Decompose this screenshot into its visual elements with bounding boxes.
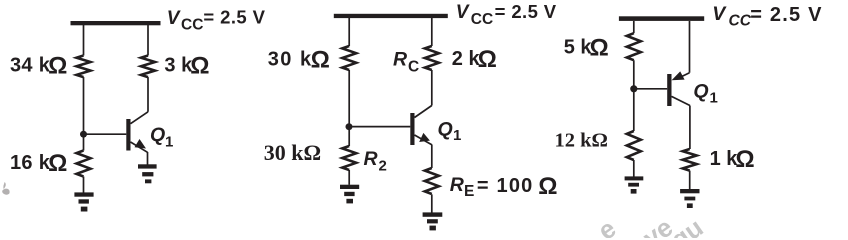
svg-text:V: V	[167, 8, 181, 29]
wire emitter to rail	[689, 21, 691, 73]
wire emitter to ground	[147, 152, 149, 165]
label 12 kOhm (serif)	[555, 130, 608, 152]
svg-text:= 2.5 V: = 2.5 V	[750, 4, 822, 26]
wire RC to collector Q1	[431, 70, 433, 106]
wire R16k to ground	[83, 177, 85, 193]
watermark letters ve	[637, 212, 678, 240]
wire rail to R 34k	[83, 25, 85, 56]
VCC rail 1	[71, 21, 161, 25]
svg-text:R: R	[393, 48, 407, 70]
wire R2 to ground	[348, 170, 350, 185]
svg-text:qu: qu	[665, 212, 708, 238]
wire rail to R 5k	[633, 21, 635, 33]
svg-text:CC: CC	[729, 13, 752, 30]
ground 4 (under RE)	[423, 212, 443, 230]
resistor R2	[342, 146, 356, 170]
wire rail to R 3k	[147, 25, 149, 56]
resistor 30 kOhm (upper)	[342, 46, 356, 70]
svg-text:V: V	[456, 2, 470, 23]
ground 3 (under R2)	[340, 185, 359, 204]
label 3 kOhm	[164, 52, 209, 79]
label 30 kOhm (left of R2, serif)	[264, 140, 321, 165]
svg-text:V: V	[712, 3, 727, 25]
wire emitter to RE	[431, 145, 433, 169]
svg-text:1: 1	[710, 90, 718, 107]
svg-text:= 2.5 V: = 2.5 V	[495, 1, 557, 22]
ground 1 (under 16k)	[74, 192, 93, 211]
svg-text:CC: CC	[181, 17, 203, 34]
wire R12k to ground	[633, 160, 635, 177]
wire R3k to collector Q1	[147, 77, 149, 112]
node A (base divider junction)	[80, 131, 87, 138]
watermark letters qu	[665, 212, 708, 240]
svg-text:1: 1	[453, 127, 461, 144]
label 5 kOhm	[564, 34, 609, 61]
label VCC1 = 2.5 V	[167, 6, 266, 33]
svg-text:Q: Q	[150, 124, 165, 146]
svg-text:E: E	[464, 183, 474, 200]
wire R30k to node B	[348, 70, 350, 146]
transistor Q1 (circuit 2, NPN)	[352, 106, 432, 146]
label 34 kOhm	[10, 53, 68, 80]
resistor 5 kOhm	[627, 33, 641, 60]
node C (base divider junction)	[630, 85, 637, 92]
svg-text:2: 2	[379, 158, 387, 175]
wire R5k to node C	[633, 60, 635, 131]
label Q1 (circuit 3)	[693, 80, 717, 106]
wire collector to R1k	[689, 106, 691, 150]
label RC	[393, 48, 419, 75]
svg-text:30 kΩ: 30 kΩ	[264, 140, 321, 165]
wire R1k to ground	[689, 171, 691, 189]
svg-text:1: 1	[165, 134, 173, 151]
svg-text:3 kΩ: 3 kΩ	[164, 52, 209, 79]
svg-text:e: e	[592, 213, 621, 238]
svg-text:1 kΩ: 1 kΩ	[710, 146, 755, 173]
svg-text:34 kΩ: 34 kΩ	[10, 53, 68, 80]
label 2 kOhm	[452, 46, 497, 73]
svg-text:C: C	[408, 59, 419, 76]
resistor 1 kOhm	[683, 149, 697, 171]
ground 6 (under 1k)	[680, 189, 699, 208]
transistor Q1 (circuit 1, NPN)	[87, 112, 149, 153]
VCC rail 2	[334, 14, 448, 18]
label RE = 100 Ohm	[450, 173, 559, 200]
svg-text:CC: CC	[471, 11, 493, 28]
label Q1 (circuit 1)	[150, 124, 173, 151]
svg-text:R: R	[450, 174, 464, 196]
resistor 12 kOhm	[627, 131, 641, 160]
resistor RC 2 kOhm	[425, 46, 439, 70]
transistor Q1 (circuit 3, PNP)	[637, 71, 690, 106]
watermark letter e	[592, 213, 621, 240]
wire R34k to node A	[83, 77, 85, 150]
label 30 kOhm (upper, sans)	[268, 47, 332, 74]
wire rail to R 30k	[348, 18, 350, 46]
resistor 3 kOhm	[141, 56, 155, 78]
VCC rail 3	[619, 16, 704, 21]
label VCC3 = 2.5 V	[712, 3, 822, 30]
node B (base divider junction)	[346, 123, 353, 130]
label 16 kOhm	[10, 150, 68, 177]
label R2	[364, 148, 387, 175]
wire rail to RC	[431, 18, 433, 46]
resistor 16 kOhm	[77, 151, 91, 177]
ground 5 (under 12k)	[625, 176, 644, 193]
svg-text:Q: Q	[438, 119, 453, 141]
svg-text:2 kΩ: 2 kΩ	[452, 46, 497, 73]
stray mark (left edge)	[2, 182, 9, 195]
svg-text:= 100 Ω: = 100 Ω	[477, 173, 559, 200]
resistor RE	[425, 168, 439, 194]
label Q1 (circuit 2)	[438, 119, 462, 145]
svg-text:= 2.5 V: = 2.5 V	[203, 6, 265, 27]
label VCC2 = 2.5 V	[456, 1, 557, 28]
resistor 34 kOhm	[77, 56, 91, 78]
svg-text:16 kΩ: 16 kΩ	[10, 150, 68, 177]
svg-text:5 kΩ: 5 kΩ	[564, 34, 609, 61]
svg-text:Q: Q	[693, 80, 708, 102]
svg-text:30 kΩ: 30 kΩ	[268, 47, 332, 74]
ground 2 (under Q1 emitter)	[138, 164, 157, 183]
label 1 kOhm	[710, 146, 755, 173]
svg-text:12 kΩ: 12 kΩ	[555, 130, 608, 152]
wire RE to ground	[431, 194, 433, 212]
svg-text:R: R	[364, 148, 378, 170]
